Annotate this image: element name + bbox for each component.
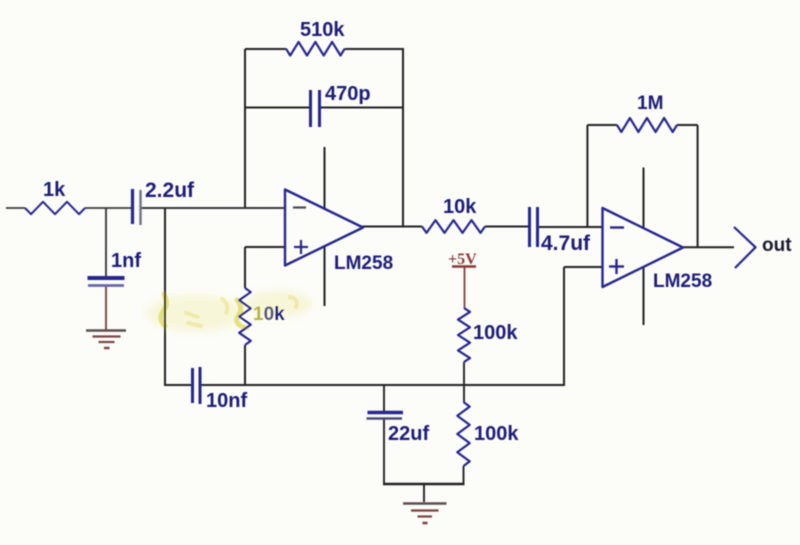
- svg-text:1k: 1k: [43, 179, 66, 201]
- svg-text:4.7uf: 4.7uf: [541, 232, 591, 255]
- svg-text:1nf: 1nf: [111, 250, 141, 272]
- svg-text:10k: 10k: [443, 196, 477, 218]
- svg-text:LM258: LM258: [653, 271, 712, 292]
- svg-text:out: out: [762, 235, 792, 256]
- svg-text:10nf: 10nf: [206, 390, 247, 412]
- svg-text:+5V: +5V: [448, 251, 477, 268]
- svg-text:470p: 470p: [325, 83, 371, 105]
- svg-text:LM258: LM258: [334, 253, 393, 274]
- svg-text:510k: 510k: [300, 19, 345, 41]
- svg-text:2.2uf: 2.2uf: [145, 179, 195, 202]
- svg-text:22uf: 22uf: [388, 423, 429, 445]
- svg-text:100k: 100k: [473, 322, 518, 344]
- svg-text:1M: 1M: [637, 93, 663, 114]
- svg-text:100k: 100k: [474, 423, 519, 445]
- svg-text:10k: 10k: [253, 304, 285, 325]
